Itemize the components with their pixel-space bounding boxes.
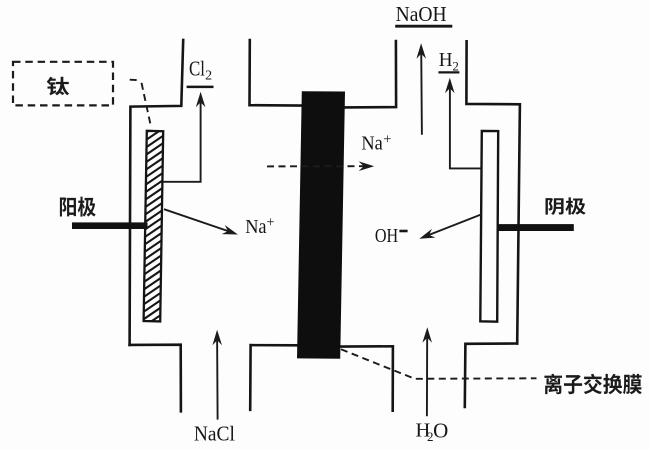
wire+arrow: Cl2 gas from anode up the chimney	[163, 96, 201, 182]
cell wall: NaOH chimney right wall + top-right rim + right side	[466, 41, 520, 343]
underline of H2	[438, 71, 459, 73]
label yangji (anode)	[60, 197, 96, 217]
label OH-	[375, 225, 398, 247]
wire+arrow: H2 gas from cathode up	[450, 82, 482, 168]
label H2O	[416, 418, 449, 444]
label lizijiaohuanmo (ion exchange membrane)	[544, 374, 641, 395]
arrow: OH- toward label from cathode	[425, 214, 482, 236]
dashed pointer from membrane to its label	[341, 349, 537, 379]
label H2	[439, 49, 459, 74]
underline of Cl2	[187, 86, 214, 89]
dashed pointer from Ti box to anode plate	[130, 79, 139, 82]
ion exchange membrane (black bar)	[297, 91, 345, 359]
label yinji (cathode)	[546, 197, 586, 215]
cell wall: NaCl inlet left wall + bottom-left rim	[130, 345, 181, 412]
svg-text:+: +	[266, 215, 274, 231]
arrow: NaCl feed in	[216, 335, 219, 419]
dashed arrow: Na+ migrating through membrane	[267, 165, 368, 167]
cell wall: rim from membrane + NaOH chimney left wall	[344, 41, 396, 107]
cell wall: bottom rim membrane to NaCl inlet right wall	[250, 345, 297, 410]
label Cl2	[189, 56, 212, 83]
anode terminal lead (thick bar)	[72, 222, 148, 229]
arrow: Na+ leaving anode	[164, 209, 233, 232]
svg-text:NaOH: NaOH	[396, 2, 447, 26]
svg-text:Na: Na	[245, 217, 267, 238]
cell wall: bottom-right + H2O inlet right wall	[465, 344, 517, 408]
cell wall: left side + top-left rim + Cl2 chimney left wall	[130, 40, 184, 345]
label Na+ (inside left compartment)	[245, 215, 274, 238]
cell wall: Cl2 chimney right wall + rim to membrane	[250, 40, 302, 106]
svg-text:2: 2	[205, 69, 212, 84]
label Na+ (at membrane)	[361, 131, 391, 154]
arrow: H2O feed in	[426, 333, 428, 416]
svg-text:NaCl: NaCl	[194, 422, 235, 446]
arrow: NaOH rising out of middle chimney	[420, 48, 423, 135]
underline of NaOH	[395, 25, 452, 28]
label tai (titanium)	[47, 77, 69, 96]
svg-text:H: H	[439, 49, 453, 71]
cell wall: H2O inlet left wall + bottom rim to membrane	[340, 346, 393, 410]
svg-text:Cl: Cl	[189, 56, 205, 80]
svg-text:Na: Na	[361, 133, 383, 154]
svg-text:O: O	[433, 418, 448, 442]
cathode electrode (outlined plate)	[480, 131, 498, 322]
svg-text:OH: OH	[375, 225, 398, 247]
dashed callout box for titanium (Ti)	[13, 62, 113, 106]
cathode terminal lead (thick bar)	[497, 224, 573, 231]
svg-text:+: +	[383, 131, 391, 147]
